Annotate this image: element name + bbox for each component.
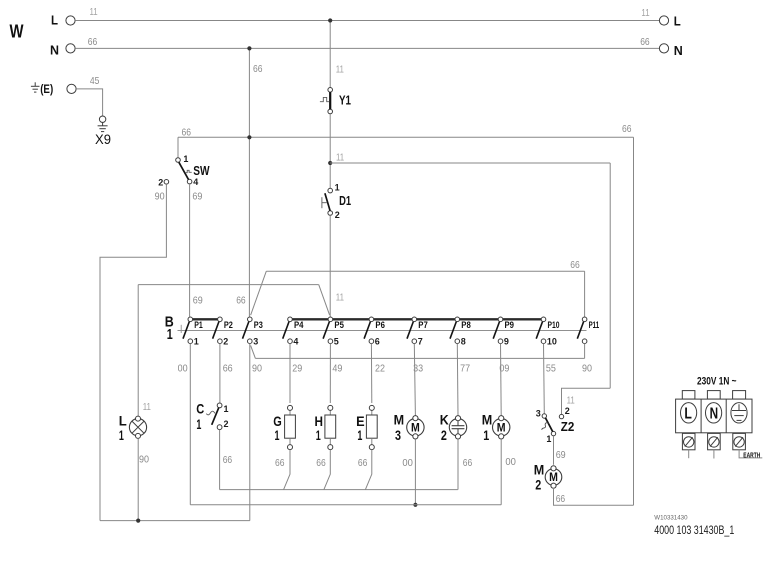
svg-text:1: 1: [167, 327, 173, 343]
svg-text:W10331430: W10331430: [654, 515, 688, 522]
wire P3 to 90 rail: [251, 345, 256, 358]
svg-text:3: 3: [536, 409, 541, 419]
svg-text:P1: P1: [194, 320, 203, 330]
wire below N screw: [713, 450, 715, 459]
svg-text:230V 1N ~: 230V 1N ~: [697, 376, 737, 388]
svg-text:66: 66: [556, 494, 566, 505]
svg-text:X9: X9: [95, 132, 111, 147]
wire P1 to 00 bus: [189, 343, 191, 504]
terminal N 230V: [706, 403, 722, 423]
bar P6-P7: [374, 318, 413, 320]
wire SW-2 to bottom bus: [100, 184, 166, 520]
svg-text:1: 1: [357, 427, 362, 443]
wire L to Y1: [329, 23, 331, 88]
wire M2 to 66 rail: [554, 488, 634, 505]
svg-text:77: 77: [460, 364, 470, 375]
wire P4 to G1: [289, 343, 291, 403]
svg-text:11: 11: [336, 293, 344, 304]
svg-text:1: 1: [119, 427, 124, 443]
wire 66 rail B to P11: [251, 271, 585, 317]
contact P7: [407, 317, 417, 344]
ground symbol (E): [34, 82, 36, 86]
wire P6 to E1: [370, 343, 372, 403]
motor M2: [545, 466, 562, 489]
wire L rail: [75, 20, 659, 22]
bar P4-P5: [292, 318, 328, 320]
switch SW: [164, 158, 192, 184]
svg-text:D1: D1: [339, 193, 351, 208]
svg-text:66: 66: [223, 455, 233, 466]
wire N to P3 top: [248, 51, 250, 317]
wire P2 to C1: [219, 343, 221, 403]
valve Y1: [320, 88, 333, 114]
svg-text:1: 1: [335, 183, 340, 193]
svg-text:11: 11: [90, 7, 98, 18]
svg-text:W: W: [10, 22, 24, 42]
svg-text:2: 2: [223, 337, 228, 347]
contact P4: [283, 317, 293, 344]
svg-text:90: 90: [252, 364, 262, 375]
svg-text:M: M: [394, 412, 405, 428]
svg-text:P8: P8: [461, 320, 471, 330]
bar P7-P8: [417, 318, 456, 320]
wire N rail: [75, 47, 659, 49]
svg-text:M: M: [482, 412, 493, 428]
svg-text:1: 1: [483, 427, 489, 443]
heater G1: [285, 405, 296, 449]
svg-text:66: 66: [570, 260, 580, 271]
wire E to X9: [76, 89, 102, 116]
svg-text:L: L: [51, 13, 58, 28]
node 11 junction: [328, 161, 332, 165]
wire D1 to P5 top: [329, 215, 331, 316]
svg-text:66: 66: [358, 458, 368, 469]
svg-text:2: 2: [158, 177, 163, 187]
wire rail 66 bottom: [220, 489, 458, 491]
wire lamp L1 to P5: [138, 285, 329, 416]
contact P10: [536, 317, 546, 344]
ground X9: [102, 122, 104, 125]
svg-text:11: 11: [641, 8, 649, 19]
terminal L left: [66, 16, 75, 25]
node 90 junction: [136, 519, 140, 523]
svg-text:L: L: [119, 412, 127, 428]
contact P1: [183, 317, 193, 344]
svg-text:N: N: [50, 43, 59, 58]
svg-text:SW: SW: [193, 163, 210, 178]
svg-text:2: 2: [441, 427, 447, 443]
wire P5 to H1: [329, 343, 331, 403]
wire rail 90: [255, 357, 584, 359]
svg-text:00: 00: [402, 458, 413, 469]
svg-text:5: 5: [334, 337, 339, 347]
svg-text:66: 66: [223, 364, 233, 375]
svg-text:N: N: [674, 43, 683, 58]
terminal N left: [66, 44, 75, 53]
svg-text:90: 90: [139, 455, 149, 466]
svg-text:90: 90: [155, 191, 165, 202]
svg-text:66: 66: [640, 37, 650, 48]
terminal L 230V: [681, 403, 697, 423]
contact P11: [577, 317, 587, 344]
svg-text:P11: P11: [589, 320, 600, 330]
mechanical link line: [178, 325, 587, 333]
wire C1 to 66 bus: [219, 430, 221, 490]
svg-text:1: 1: [316, 427, 321, 443]
svg-text:9: 9: [504, 337, 509, 347]
svg-text:P5: P5: [334, 320, 344, 330]
contact P2: [213, 317, 223, 344]
svg-text:90: 90: [582, 364, 592, 375]
svg-text:P9: P9: [505, 320, 515, 330]
screw terminal N: [708, 433, 721, 449]
wire P8 to K2: [456, 343, 459, 415]
svg-text:M: M: [549, 472, 558, 484]
wire K2 to 66 bus: [457, 439, 459, 489]
svg-text:7: 7: [418, 337, 423, 347]
svg-text:69: 69: [192, 191, 202, 202]
svg-text:P3: P3: [254, 320, 263, 330]
svg-text:66: 66: [275, 458, 285, 469]
wire P10 to Z2: [543, 343, 546, 414]
node N junction: [247, 46, 251, 50]
svg-text:6: 6: [375, 337, 380, 347]
wire 66 to SW: [177, 137, 179, 158]
svg-text:8: 8: [461, 337, 466, 347]
svg-text:L: L: [674, 14, 681, 29]
wire P9 to M1: [500, 343, 503, 415]
svg-text:2: 2: [565, 406, 570, 416]
connector X9: [99, 116, 105, 122]
svg-text:M: M: [534, 461, 545, 477]
wire E1 to 66 bus: [365, 450, 371, 490]
svg-text:1: 1: [275, 427, 280, 443]
wire M3 to 00 bus: [414, 439, 416, 505]
node 66 junction: [247, 135, 251, 139]
wire below L screw: [688, 450, 690, 458]
svg-text:N: N: [710, 406, 719, 423]
svg-text:00: 00: [178, 364, 188, 375]
svg-text:66: 66: [253, 64, 263, 75]
terminal N right: [659, 44, 668, 53]
wire P11 to 90 rail: [584, 343, 586, 358]
svg-text:L: L: [684, 406, 692, 423]
wire rail 00: [190, 504, 501, 506]
wire G1 to 66 bus: [284, 450, 290, 490]
wire P7 to M3: [414, 343, 415, 415]
svg-text:11: 11: [336, 152, 344, 163]
bar P1-P2: [193, 318, 218, 320]
switch Z2: [542, 414, 564, 436]
svg-text:4000 103 31430B_1: 4000 103 31430B_1: [654, 523, 734, 537]
svg-text:66: 66: [622, 124, 632, 135]
svg-text:00: 00: [505, 457, 516, 468]
svg-text:4: 4: [193, 177, 198, 187]
contact P8: [450, 317, 460, 344]
wire M1 to 00 bus: [500, 439, 502, 505]
svg-text:1: 1: [224, 404, 229, 414]
motor M1: [493, 416, 510, 439]
svg-text:11: 11: [567, 396, 575, 407]
svg-text:K: K: [440, 412, 449, 428]
svg-text:(E): (E): [40, 82, 53, 96]
svg-text:29: 29: [292, 364, 302, 375]
svg-text:11: 11: [336, 65, 344, 76]
screw terminal L: [682, 433, 695, 449]
motor M3: [407, 416, 424, 439]
svg-text:1: 1: [194, 337, 199, 347]
contact P9: [493, 317, 503, 344]
terminal L right: [659, 16, 668, 25]
node 00 junction: [413, 503, 417, 507]
svg-text:66: 66: [463, 458, 473, 469]
wire below PE screw: [739, 450, 762, 458]
svg-text:Y1: Y1: [339, 92, 351, 107]
svg-text:4: 4: [293, 337, 298, 347]
bar P8-P9: [460, 318, 499, 320]
terminal PE 230V: [731, 403, 747, 423]
svg-text:1: 1: [546, 434, 551, 444]
wire 66 rail down right side: [633, 137, 635, 505]
svg-text:2: 2: [535, 477, 541, 493]
svg-text:1: 1: [183, 154, 188, 164]
svg-text:M: M: [497, 422, 506, 434]
svg-text:66: 66: [88, 37, 98, 48]
node L junction: [328, 18, 332, 22]
terminal E: [67, 84, 76, 93]
wire rail 66: [178, 136, 634, 138]
svg-text:55: 55: [546, 364, 556, 375]
svg-text:22: 22: [375, 364, 385, 375]
lamp L1: [129, 416, 146, 438]
switch C1: [206, 403, 222, 430]
bar P5-P6: [333, 318, 370, 320]
svg-text:P10: P10: [548, 320, 560, 330]
contact P3: [243, 317, 253, 344]
wire Z2-1 to M2: [553, 436, 555, 465]
svg-text:EARTH: EARTH: [743, 452, 760, 459]
switch D1: [322, 188, 333, 215]
svg-text:10: 10: [547, 337, 557, 347]
contact P5: [323, 317, 333, 344]
screw terminal PE: [733, 433, 746, 449]
contact P6: [364, 317, 374, 344]
svg-text:1: 1: [196, 416, 201, 432]
wire Y1 to node 11: [329, 114, 331, 161]
wire node to D1: [329, 165, 331, 188]
wire L1 to bottom bus: [137, 439, 139, 521]
svg-text:3: 3: [253, 337, 258, 347]
svg-text:66: 66: [182, 127, 192, 138]
wire SW-4 to P1 top: [189, 184, 191, 317]
svg-text:P6: P6: [375, 320, 385, 330]
terminal block 230V: [676, 391, 752, 433]
heater H1: [325, 405, 336, 449]
svg-text:49: 49: [332, 364, 342, 375]
svg-text:69: 69: [556, 450, 566, 461]
svg-text:11: 11: [143, 402, 151, 413]
svg-text:69: 69: [193, 295, 203, 306]
svg-text:66: 66: [236, 295, 246, 306]
bar P9-P10: [503, 318, 542, 320]
svg-text:3: 3: [395, 427, 401, 443]
suppressor K2: [449, 416, 466, 439]
svg-text:2: 2: [224, 419, 229, 429]
wire Z2-2 up to node 11: [562, 388, 611, 414]
svg-text:C: C: [196, 400, 204, 416]
svg-text:45: 45: [90, 76, 100, 87]
svg-text:P7: P7: [418, 320, 428, 330]
svg-text:P4: P4: [294, 320, 304, 330]
wire rail 90 bottom: [100, 520, 250, 522]
heater E1: [366, 405, 377, 449]
svg-text:66: 66: [316, 458, 326, 469]
wire H1 to 66 bus: [324, 450, 330, 490]
svg-text:M: M: [411, 422, 420, 434]
wire P3 down: [249, 343, 251, 520]
svg-text:Z2: Z2: [561, 419, 575, 434]
wire node 11 right: [330, 162, 610, 164]
svg-text:2: 2: [335, 210, 340, 220]
wire down to Z2: [609, 163, 611, 388]
svg-text:P2: P2: [224, 320, 233, 330]
